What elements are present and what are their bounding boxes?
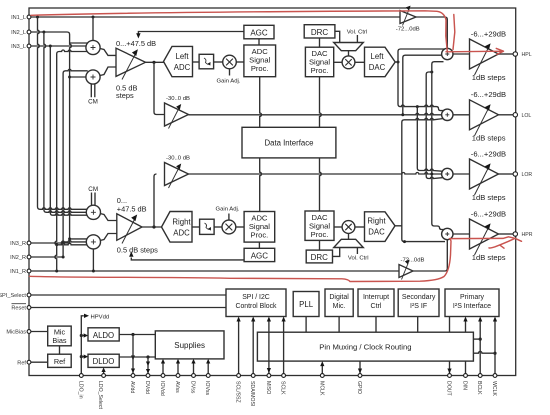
svg-text:Supplies: Supplies (174, 341, 205, 350)
pin IN1_L (11, 15, 31, 21)
multiplier X (ADC gain adjust, left) (223, 55, 237, 69)
decimation filter box U-f1 (199, 54, 214, 69)
wire gain adj stub (left ADC) (229, 69, 231, 76)
svg-text:AVdd: AVdd (129, 381, 135, 393)
wire IN1_R up to right mixer B bottom (92, 249, 94, 271)
wire IN1_R row to bottom -72dB amplifier input (29, 270, 400, 272)
wire SPI_Select row to SPI/I2C block (29, 294, 226, 296)
red annotation path input IN1_L to HPL output (31, 11, 504, 55)
svg-text:Bias: Bias (52, 336, 67, 345)
svg-text:SDA/MOSI: SDA/MOSI (249, 381, 255, 406)
svg-text:SCL/SSZ: SCL/SSZ (235, 381, 241, 403)
pin AVss (174, 374, 180, 394)
svg-text:SPI / I2C: SPI / I2C (242, 294, 270, 301)
wire junction into ALDO with arrow (81, 333, 88, 337)
wire DAC Signal Proc (top) down to Data Interface (320, 77, 322, 128)
svg-text:LDO_Select: LDO_Select (97, 381, 103, 410)
svg-text:DIN: DIN (462, 381, 468, 390)
wire AGC to ADC Signal Proc stub (left) (258, 39, 260, 45)
wire right PGA output to Right ADC (142, 226, 163, 228)
wire DOUT Pin Muxing to pin with down arrow (447, 361, 451, 373)
wire left PGA output to Left ADC (146, 61, 164, 63)
wire Reset row to SPI/I2C block (29, 307, 226, 309)
node junction Left DAC / v398 (397, 61, 400, 64)
svg-text:HPL: HPL (522, 52, 532, 58)
wire ADC Signal Proc (left) down to Data Interface (260, 77, 262, 128)
pin LDO_Select (97, 374, 105, 410)
svg-text:I²S Interface: I²S Interface (453, 303, 491, 310)
pin LOR (513, 172, 532, 178)
svg-text:-30..0 dB: -30..0 dB (166, 156, 190, 162)
wire vertical v55 from IN1_R up to left mixer 1 input (55, 50, 90, 271)
node junction left PGA output (152, 61, 155, 64)
wire filter to gain multiplier (right) (214, 226, 222, 228)
svg-text:MCLK: MCLK (318, 381, 324, 396)
wire AGC gain control to left PGA with down arrow (136, 32, 244, 39)
wire IN1_L drop to left mixer 1 (92, 17, 94, 41)
wire Data Interface down to DAC Signal Proc (bottom) (320, 158, 322, 211)
node junction on HPR bottom run (403, 240, 406, 243)
svg-text:PLL: PLL (299, 300, 314, 309)
pin IOVdd (159, 374, 165, 396)
svg-text:1dB steps: 1dB steps (472, 73, 506, 82)
wire right mixer B output to right PGA input (100, 234, 117, 241)
wire IN2_R row (29, 256, 65, 258)
svg-text:IN1_L: IN1_L (11, 15, 26, 21)
wire AVdd column with arrows (131, 335, 135, 376)
wire MicBias pin to Mic Bias block (29, 331, 48, 333)
wire DVss stub into Supplies with up arrow (191, 359, 195, 376)
wire right mixer A output to right PGA input (100, 214, 117, 221)
block AGC (right) (244, 248, 275, 261)
wire AVss stub into Supplies with up arrow (176, 359, 180, 376)
ADC converter block Right ADC (162, 212, 193, 243)
svg-text:Ref: Ref (54, 357, 66, 366)
wire v426.2 tap to LOR mixer bottom input (426, 72, 443, 179)
analog attenuator -72...0dB (bottom) (399, 260, 413, 280)
wire Left ADC to decimation filter (193, 61, 200, 63)
svg-text:ADC: ADC (174, 63, 191, 72)
block Supplies (155, 331, 224, 359)
node junction IN2_L / v40 (42, 31, 45, 34)
svg-text:DAC: DAC (368, 228, 385, 237)
wire DAC Signal Proc down to DRC (bottom) (319, 240, 321, 250)
svg-text:I²S IF: I²S IF (410, 303, 427, 310)
svg-text:-6...+29dB: -6...+29dB (471, 90, 506, 99)
svg-text:Proc.: Proc. (311, 230, 329, 239)
wire branch x71 to left mixer 2 input (70, 76, 90, 78)
pin IN2_R (10, 255, 31, 261)
node junction LDO_in / ALDO (80, 334, 83, 337)
wire Data Interface down to ADC Signal Proc (right) (260, 158, 262, 212)
wire HPR mixer to HPR amplifier (453, 233, 470, 235)
block Mic Bias (48, 326, 71, 346)
wire IOVss stub into Supplies with up arrow (206, 359, 210, 376)
wire multiplier to ADC Signal Proc (left) (236, 61, 244, 63)
wire vertical v40 from IN2_L to right mixer A input 2 (50, 46, 90, 215)
svg-text:Gain Adj.: Gain Adj. (217, 79, 241, 85)
pin HPL (513, 52, 532, 58)
wire WCLK pin to Primary I2S with up arrow (493, 317, 497, 376)
wire Ref pin to Ref block (29, 361, 48, 363)
svg-text:1dB steps: 1dB steps (472, 193, 506, 202)
node junction v69.6 / B1 (68, 237, 71, 240)
svg-text:Mic.: Mic. (333, 303, 346, 310)
svg-text:MISO: MISO (265, 381, 271, 394)
pin WCLK (491, 374, 497, 397)
node junction IN1_R / mixer B (92, 270, 95, 273)
wire Right ADC to decimation filter (192, 226, 200, 228)
block Digital Mic. (325, 289, 353, 317)
svg-text:LOR: LOR (522, 172, 533, 178)
wire BCLK tap to Pin Muxing (473, 338, 480, 340)
pin IN1_R (10, 269, 31, 275)
bypass amplifier 1 -30..0 dB (165, 103, 189, 129)
svg-text:Ref: Ref (17, 360, 26, 366)
svg-text:DRC: DRC (311, 28, 329, 37)
node junction x71 branch (68, 76, 71, 79)
node junction DLDO output / DVdd column (146, 355, 149, 358)
chip outer boundary (29, 8, 516, 376)
svg-text:DLDO: DLDO (93, 357, 115, 366)
pin HPR (513, 232, 533, 238)
wire DLDO output to Supplies (119, 356, 155, 358)
wire LOL amplifier to LOL pin (499, 114, 515, 116)
wire CM stubs below left mixer 2 (91, 84, 95, 98)
wire v431.8 HPL tap down to HPR mixer top input (432, 62, 444, 230)
wire bypass amp 1 output to LOL mixer (189, 113, 444, 114)
block DLDO (88, 354, 119, 367)
multiplier X (DAC volume, bottom) (342, 221, 355, 234)
PGA amplifier right record 0...+47.5 dB (117, 214, 142, 244)
wire LOR mixer to LOR amplifier (453, 173, 470, 175)
node junction v56.7 / B3 (55, 243, 58, 246)
wire IN3_L row into left mixer 1 (29, 45, 88, 47)
wire multiplier to Left DAC (355, 61, 365, 63)
decimation filter box U-f2 (200, 219, 215, 234)
svg-text:Gain Adj.: Gain Adj. (216, 207, 240, 213)
svg-text:AVss: AVss (174, 381, 180, 393)
node junction right PGA output (152, 225, 155, 228)
wire GPIO pin to Pin Muxing with down arrow (358, 361, 362, 373)
pin LOL (513, 113, 531, 119)
block Pin Muxing / Clock Routing (257, 332, 473, 361)
wire junction into DLDO with arrow (81, 355, 88, 359)
block DRC (bottom) (306, 250, 332, 263)
wire HPR amplifier to HPR pin (499, 233, 515, 235)
wire ALDO output to Supplies (119, 334, 155, 336)
wire WCLK tap to Pin Muxing with hop over BCLK (473, 351, 495, 353)
pin BCLK (476, 374, 482, 395)
block DAC Signal Proc (top) (305, 47, 333, 76)
wire DAC Signal Proc to multiplier (top) (334, 61, 342, 63)
pin Ref (17, 360, 31, 366)
wire DAC Signal Proc to multiplier (bottom) (334, 226, 342, 228)
node junction IN1_R / v55 (55, 270, 58, 273)
wire IN2_L row with elbow down column x71 (29, 32, 71, 243)
svg-text:Pin Muxing / Clock Routing: Pin Muxing / Clock Routing (319, 343, 411, 352)
svg-text:DVss: DVss (190, 381, 196, 394)
pin SDA/MOSI (249, 374, 255, 407)
pin Reset (active low, overline) (11, 304, 31, 312)
svg-text:DVdd: DVdd (144, 381, 150, 394)
node junction v426.2 tap on v431.8 (430, 71, 433, 74)
node junction bypass1 / v402.8 (401, 113, 404, 116)
svg-text:DAC: DAC (369, 63, 386, 72)
block Interrupt Ctrl (358, 289, 394, 317)
pin DVdd (144, 374, 150, 394)
svg-text:Digital: Digital (329, 294, 349, 301)
arrowhead HPVdd (84, 314, 89, 318)
block DRC (top) (304, 25, 335, 38)
wire SCL/SSZ pin to SPI block with up arrow (237, 317, 241, 376)
svg-text:Left: Left (175, 52, 189, 61)
svg-text:Primary: Primary (460, 294, 485, 301)
svg-text:Interrupt: Interrupt (363, 294, 389, 301)
svg-text:AGC: AGC (251, 252, 269, 261)
wire HPL mixer to HPL amplifier (453, 53, 470, 55)
wire Secondary I2S stub to Pin Muxing (417, 317, 419, 333)
wire multiplier to Right DAC (355, 226, 365, 228)
block DAC Signal Proc (bottom) (305, 211, 334, 240)
pin MISO (265, 374, 271, 395)
svg-text:-6...+29dB: -6...+29dB (471, 209, 506, 218)
node junction ALDO output / AVdd column (131, 333, 134, 336)
bypass amplifier 2 -30..0 dB (165, 163, 189, 189)
summing mixer left-2 (CM) (86, 70, 100, 84)
summing mixer HPL (442, 48, 453, 59)
wire Vol Ctrl stub (bottom) (356, 248, 358, 255)
wire SDA/MOSI pin to SPI block with up arrow (251, 317, 255, 376)
wire Primary I2S stub to Pin Muxing (449, 317, 451, 333)
wire junction up to -30dB bypass amp 2 (154, 174, 157, 227)
node junction v63.1 / B2 (62, 240, 65, 243)
wire Mic Bias to Ref stub (59, 346, 61, 354)
wire BCLK pin to Primary I2S with up arrow (478, 317, 482, 376)
wire vertical v63 from IN2_R up to left mixer 2 input (61, 69, 90, 257)
svg-text:Vol. Ctrl: Vol. Ctrl (348, 256, 369, 262)
wire Digital Mic stub to Pin Muxing (338, 317, 340, 333)
svg-text:BCLK: BCLK (476, 381, 482, 395)
svg-text:MicBias: MicBias (6, 330, 26, 336)
block ALDO (88, 328, 119, 341)
wire filter to gain multiplier (214, 61, 223, 63)
wire left mixer 1 output to left PGA input (100, 49, 117, 56)
wire v417.3 to LOR mixer top input (417, 107, 443, 172)
svg-text:IOVss: IOVss (204, 381, 210, 396)
svg-text:HPR: HPR (522, 232, 533, 238)
svg-text:Control Block: Control Block (236, 303, 278, 310)
red annotation path input IN1_R to HPR output (30, 237, 522, 282)
svg-text:ADC: ADC (173, 229, 190, 238)
svg-text:ALDO: ALDO (93, 331, 114, 340)
pin LDO_in (77, 374, 83, 399)
node junction IN1_L / mixer drop (92, 16, 95, 19)
pin MCLK (318, 374, 324, 396)
wire DRC to volume control (top) (335, 31, 340, 42)
svg-text:DRC: DRC (311, 253, 329, 262)
block ADC Signal Proc (right) (244, 212, 275, 243)
wire AGC gain control to right PGA with up arrow (129, 252, 244, 260)
block PLL (293, 292, 319, 317)
svg-text:-30..0 dB: -30..0 dB (166, 96, 190, 102)
svg-text:Data Interface: Data Interface (265, 139, 314, 148)
node junction v431.8 on bypass2 (430, 173, 433, 176)
pin SPI_Select (0, 293, 31, 299)
wire v398 Left DAC down to LOL mixer top input (398, 62, 444, 111)
pin MicBias (6, 330, 30, 336)
wire MCLK pin to Pin Muxing with up arrow (320, 361, 324, 375)
wire trapezoid to DAC multiplier (top) (348, 51, 350, 56)
PGA amplifier left record 0...+47.5 dB (116, 48, 146, 79)
wire SCLK pin to SPI block with up arrow (282, 317, 286, 376)
svg-text:Proc.: Proc. (251, 231, 269, 240)
wire IN3_R row joining column x71 (29, 242, 70, 244)
wire DRC down to DAC Signal Proc (top) (319, 38, 321, 47)
node junction BCLK / Pin Muxing tap (479, 338, 482, 341)
wire left mixer 2 output to left PGA input (100, 67, 117, 76)
node junction IN2_R / v63 (62, 256, 65, 259)
node junction LDO_in / DLDO (80, 355, 83, 358)
wire HPL amplifier to HPL pin (499, 53, 515, 55)
block SPI / I2C Control Block (226, 289, 286, 317)
wire gain adj stub (right ADC) (228, 214, 230, 221)
svg-text:LOL: LOL (522, 113, 532, 119)
svg-text:CM: CM (88, 186, 98, 193)
svg-text:IOVdd: IOVdd (159, 381, 165, 396)
pin IN3_R (10, 241, 31, 247)
svg-text:-6...+29dB: -6...+29dB (471, 149, 506, 158)
svg-text:HPVdd: HPVdd (91, 314, 110, 320)
pin SCLK (280, 374, 286, 395)
output amplifier LOL -6...+29dB (470, 100, 499, 136)
svg-text:IN2_R: IN2_R (10, 255, 26, 261)
volume control trapezoid (bottom DAC) (334, 239, 364, 247)
svg-text:Right: Right (367, 217, 386, 226)
wire v398 Left DAC up to HPL mixer top input (398, 49, 445, 62)
summing mixer LOL (442, 109, 453, 120)
wire LDO_Select stub into DLDO with up arrow (102, 367, 106, 375)
block AGC (left) (244, 25, 274, 39)
wire DRC to volume control (bottom) (333, 248, 340, 257)
wire PLL stub to Pin Muxing (305, 317, 307, 333)
summing mixer right-A (CM) (86, 205, 100, 219)
svg-text:CM: CM (88, 99, 98, 106)
output amplifier LOR -6...+29dB (470, 159, 499, 195)
block ADC Signal Proc (left) (244, 45, 276, 77)
wire IN1_L row (29, 16, 400, 18)
summing mixer left-1 (86, 40, 100, 54)
wire DIN pin to Pin Muxing and stub to Primary I2S with up arrow (463, 317, 467, 376)
pin DOUT (446, 374, 452, 397)
svg-text:+47.5 dB: +47.5 dB (117, 205, 147, 214)
svg-text:0...+47.5 dB: 0...+47.5 dB (116, 39, 156, 48)
wire v402.8 bypass1 up to HPL mixer middle input (403, 55, 445, 115)
svg-text:SCLK: SCLK (280, 381, 286, 395)
svg-text:IN3_L: IN3_L (11, 44, 26, 50)
summing mixer HPR (442, 228, 453, 239)
block Ref (48, 354, 71, 367)
pin DVss (190, 374, 196, 394)
output amplifier HPL -6...+29dB (470, 39, 499, 75)
wire junction down to -30dB bypass amp 1 (154, 62, 165, 114)
pin IN3_L (11, 44, 31, 50)
wire LOR amplifier to LOR pin (499, 173, 515, 175)
svg-text:DOUT: DOUT (446, 381, 452, 397)
wire LOL mixer to LOL amplifier (453, 114, 470, 116)
wire Left DAC output to routing node (395, 61, 398, 63)
summing mixer LOR (442, 168, 453, 179)
output amplifier HPR -6...+29dB (470, 219, 499, 255)
DAC converter block Right DAC (365, 212, 396, 242)
svg-text:Reset: Reset (11, 306, 26, 312)
wire CM stubs above right mixer A (92, 193, 96, 207)
wire multiplier to trapezoid (bottom) (348, 233, 350, 239)
wire vertical v36.5 from IN1_L to right mixer B input 1 (44, 32, 90, 212)
svg-text:-72...0dB: -72...0dB (401, 258, 425, 264)
pin IOVss (204, 374, 210, 396)
wire v69.6 T to right mixer B input 1 (70, 238, 90, 240)
svg-text:1dB steps: 1dB steps (472, 133, 506, 142)
node junction IN3_L / v47.5 (49, 45, 52, 48)
wire -72dB amp (top) output to HPL mixer (416, 17, 447, 48)
node junction IN1_L / v33 (36, 16, 39, 19)
svg-text:IN2_L: IN2_L (11, 30, 26, 36)
pin IN2_L (11, 30, 31, 36)
multiplier X (DAC volume, top) (342, 56, 355, 69)
svg-text:Secondary: Secondary (402, 294, 436, 301)
ADC converter block Left ADC (164, 46, 193, 76)
svg-text:WCLK: WCLK (491, 381, 497, 397)
wire Interrupt stub to Pin Muxing (375, 317, 377, 333)
svg-text:SPI_Select: SPI_Select (0, 293, 26, 299)
svg-text:-6...+29dB: -6...+29dB (471, 29, 506, 38)
wire vertical v33 from IN1_L to right mixer A input 1 (38, 17, 91, 209)
svg-text:GPIO: GPIO (356, 381, 362, 394)
DAC converter block Left DAC (365, 47, 396, 76)
wire v403.4 from Right DAC to LOL bottom input and HPR bottom input (395, 118, 445, 241)
summing mixer right-B (86, 235, 100, 249)
svg-text:Proc.: Proc. (311, 66, 329, 75)
svg-text:Proc.: Proc. (251, 64, 269, 73)
wire LDO_in column with HPVdd branch (81, 316, 84, 376)
svg-text:IN3_R: IN3_R (10, 241, 26, 247)
pin DIN (462, 374, 468, 391)
svg-text:Right: Right (172, 218, 191, 227)
pin AVdd (129, 374, 135, 394)
svg-text:Left: Left (370, 52, 384, 61)
node junction WCLK / Pin Muxing tap (493, 352, 496, 355)
block Primary I2S Interface (445, 289, 499, 317)
wire multiplier to ADC Signal Proc (right) (236, 226, 244, 228)
block Data Interface (242, 127, 336, 158)
wire -72dB amp (bottom) output to HPR mixer (413, 240, 447, 271)
svg-text:1dB steps: 1dB steps (472, 253, 506, 262)
svg-text:0.5 dB steps: 0.5 dB steps (117, 246, 158, 255)
analog attenuator -72...0dB (top) (400, 6, 416, 26)
svg-text:LDO_in: LDO_in (77, 381, 83, 399)
wire IOVdd stub into Supplies with up arrow (161, 359, 165, 376)
wire bypass amp 2 output to LOR mixer (189, 173, 444, 175)
pin GPIO (356, 374, 362, 394)
svg-text:-72...0dB: -72...0dB (396, 27, 420, 33)
multiplier X (ADC gain adjust, right) (222, 220, 236, 234)
svg-text:steps: steps (116, 91, 134, 100)
svg-text:Vol. Ctrl: Vol. Ctrl (347, 30, 368, 36)
block Secondary I2S IF (398, 289, 439, 317)
svg-text:AGC: AGC (250, 28, 268, 37)
svg-text:Ctrl: Ctrl (371, 303, 382, 310)
